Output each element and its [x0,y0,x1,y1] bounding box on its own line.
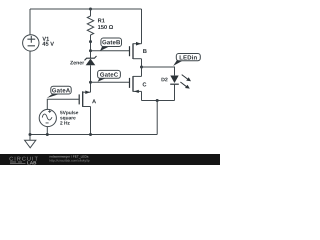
node pulse rail junction [46,133,49,136]
zener diode [70,56,96,65]
watermark bar [0,154,220,165]
wire Q_C source down [141,91,143,100]
node GateB junction [89,49,92,52]
node GateC junction [89,81,92,84]
wire zener anode to node A [90,65,92,92]
node R1 bottom terminal [89,40,92,43]
node B/C junction [140,66,143,69]
flag LEDin [173,54,200,66]
node Q_A source rail junction [89,133,92,136]
wire bottom tie [142,100,175,102]
wire bottom rail [30,134,157,136]
wire Q_A source to rail [90,107,92,135]
flag GateA [47,86,71,98]
LED D2 [162,75,192,101]
node bottom tie junction [156,99,159,102]
transistor Q_A (A) [79,91,96,107]
wire GateB (node to Q_B gate) [91,50,130,52]
pulse source V2 [39,109,78,126]
ground [25,133,36,148]
wire V1 top [29,9,31,35]
wire GateA (pulse source to Q_A gate) [47,99,79,109]
voltage source V1 [23,35,54,51]
wire GateC (node to Q_C gate) [91,81,130,83]
transistor Q_C (NMOS C) [130,76,147,93]
flag GateC [98,70,121,81]
wire pulse source to rail [46,127,48,135]
wire node to Q_C drain [141,67,143,76]
wire Q_B source to node [141,59,143,67]
flag GateB [100,38,122,51]
node junction rail/R1 [89,8,92,11]
wire top rail [30,8,142,10]
wire junction to bottom rail [156,101,158,135]
wire V1 bottom [29,51,31,134]
wire right column (rail to Q_B drain) [141,9,143,44]
transistor Q_B (PMOS B) [130,42,147,59]
resistor R1 [87,9,113,58]
wire node to LED [142,67,175,75]
